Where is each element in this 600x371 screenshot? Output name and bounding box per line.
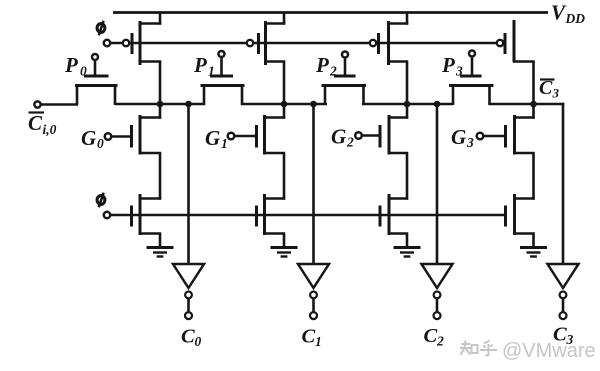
- svg-text:P: P: [64, 53, 78, 77]
- svg-text:G: G: [451, 125, 466, 149]
- svg-text:C: C: [28, 111, 43, 135]
- svg-text:3: 3: [466, 135, 474, 150]
- svg-text:P: P: [315, 53, 329, 77]
- svg-text:3: 3: [455, 64, 463, 79]
- svg-text:0: 0: [80, 64, 87, 79]
- svg-text:P: P: [193, 53, 207, 77]
- svg-text:2: 2: [329, 64, 337, 79]
- svg-text:P: P: [441, 53, 455, 77]
- svg-text:C: C: [539, 77, 553, 99]
- svg-text:1: 1: [208, 64, 215, 79]
- svg-text:0: 0: [195, 334, 202, 349]
- svg-text:G: G: [205, 126, 220, 150]
- svg-text:0: 0: [97, 136, 104, 151]
- svg-text:i,0: i,0: [43, 122, 57, 137]
- svg-text:1: 1: [221, 136, 228, 151]
- svg-text:2: 2: [436, 334, 444, 349]
- svg-text:3: 3: [552, 86, 560, 101]
- svg-text:G: G: [331, 125, 346, 149]
- svg-text:C: C: [181, 326, 195, 348]
- svg-text:C: C: [302, 326, 316, 348]
- svg-text:2: 2: [346, 135, 354, 150]
- svg-text:DD: DD: [565, 11, 586, 26]
- svg-text:1: 1: [315, 334, 322, 349]
- svg-text:@VMware: @VMware: [502, 340, 596, 362]
- svg-text:C: C: [424, 325, 438, 347]
- svg-text:G: G: [81, 126, 96, 150]
